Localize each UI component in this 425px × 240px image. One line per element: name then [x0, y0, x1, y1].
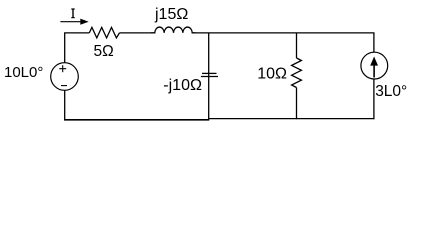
wire bottom rail right segment — [209, 118, 375, 120]
inductor L1 j15Ω (series, top) — [151, 27, 196, 33]
current source I1 circle — [361, 52, 388, 79]
current source I1 branch: wire from top wire down to circle — [373, 33, 375, 52]
resistor R2 10Ω (shunt, vertical zigzag) — [292, 58, 302, 88]
wire from R2 zigzag down to bottom rail — [296, 88, 298, 120]
voltage source plus terminal mark — [59, 65, 66, 72]
current source I1 arrow (pointing up) — [370, 57, 378, 78]
capacitor C1 top plate — [202, 72, 217, 74]
svg-text:-j10Ω: -j10Ω — [163, 77, 202, 94]
wire from voltage source down to bottom rail — [64, 90, 66, 120]
svg-text:3L0°: 3L0° — [375, 83, 407, 100]
voltage source V1 circle — [51, 63, 79, 91]
wire from current source down to bottom rail — [373, 79, 375, 119]
wire top-left horizontal segment — [64, 32, 89, 34]
wire bottom rail left segment — [64, 119, 209, 121]
current label I — [71, 9, 74, 18]
wire between resistor and inductor — [120, 32, 155, 34]
svg-text:5Ω: 5Ω — [94, 43, 114, 60]
svg-text:10L0°: 10L0° — [4, 64, 43, 81]
capacitor C1 bottom plate — [201, 76, 218, 78]
resistor R1 5Ω (series, top) — [89, 27, 119, 38]
wire from capacitor bottom plate to bottom rail — [208, 77, 210, 120]
svg-text:j15Ω: j15Ω — [154, 6, 188, 23]
capacitor C1 branch: wire from top wire down through plates — [208, 33, 210, 77]
svg-text:10Ω: 10Ω — [257, 66, 287, 83]
current direction arrow — [60, 19, 88, 25]
voltage source V1 branch: wire from top wire down to source — [64, 33, 66, 63]
voltage source minus terminal mark — [61, 85, 67, 87]
resistor R2 10Ω branch: wire from top wire down to zigzag — [296, 33, 298, 58]
wire top-right horizontal segment — [192, 32, 374, 34]
